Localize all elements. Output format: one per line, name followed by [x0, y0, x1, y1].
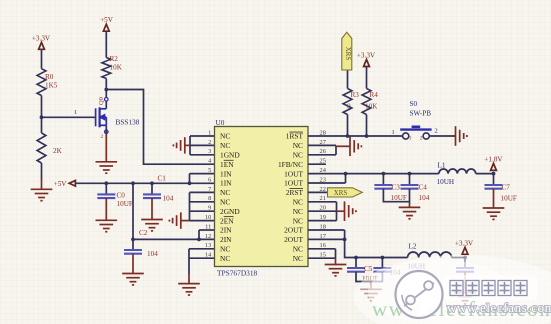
svg-text:0: 0 — [347, 103, 351, 111]
junction pin17 bracket — [343, 238, 347, 242]
wire 2IN to pin 12 — [133, 238, 215, 240]
ground (pins 21-19, sideways) — [337, 201, 356, 221]
ground (pins 27-26, sideways) — [336, 137, 361, 157]
svg-text:C3: C3 — [392, 184, 401, 192]
svg-text:www.elecfans.com: www.elecfans.com — [447, 300, 551, 315]
svg-text:+3.3V: +3.3V — [455, 239, 474, 247]
wire pin 28 (1RST) to switch S0 — [308, 135, 402, 137]
Q0 drain pin-end circle — [105, 98, 109, 102]
svg-text:2OUT: 2OUT — [284, 235, 303, 244]
wire pins 18-17 bracket to 2OUT rail — [308, 230, 408, 258]
capacitor C8 — [456, 268, 474, 272]
capacitor C4 — [401, 185, 419, 189]
svg-text:NC: NC — [220, 245, 230, 254]
power +5V (top) — [100, 16, 114, 31]
op-amp U0 TPS767D318 (IC body) — [215, 127, 309, 267]
svg-text:S0: S0 — [410, 100, 418, 108]
junction 1OUT bracket — [344, 172, 348, 176]
svg-text:14: 14 — [205, 252, 212, 259]
wire pin 23 stub (1OUT) — [308, 182, 346, 184]
ground (below 2K) — [31, 180, 53, 201]
junction rail/C0 — [104, 181, 108, 185]
svg-text:1: 1 — [74, 109, 77, 116]
svg-text:2: 2 — [208, 139, 211, 146]
wire +3.3V to R4 — [366, 67, 368, 89]
wire to C7 — [493, 174, 495, 185]
resistor R4 — [362, 89, 371, 115]
svg-text:R4: R4 — [370, 91, 379, 99]
wire pins 7-10 bracket — [190, 192, 215, 220]
junction gate node — [40, 115, 44, 119]
svg-text:NC: NC — [293, 207, 303, 216]
svg-text:104: 104 — [419, 194, 430, 202]
svg-text:2IN: 2IN — [220, 226, 232, 235]
svg-text:L1: L1 — [438, 161, 446, 169]
wire rail to C1 — [151, 183, 153, 194]
wire rail down to C2 — [132, 183, 134, 250]
junction C6 — [381, 256, 385, 260]
capacitor C3 — [374, 185, 392, 189]
junction R3 — [346, 134, 350, 138]
svg-text:10: 10 — [205, 214, 211, 221]
svg-text:L2: L2 — [409, 242, 417, 250]
ground (pins 1-3, sideways) — [173, 137, 190, 153]
svg-text:2OUT: 2OUT — [284, 226, 303, 235]
wire drain node to 1EN pin 4 — [106, 90, 214, 165]
svg-text:104: 104 — [163, 195, 174, 203]
svg-text:C1: C1 — [158, 174, 167, 182]
svg-text:13: 13 — [205, 242, 211, 249]
junction C2/2IN wire — [131, 238, 135, 242]
svg-text:XRS: XRS — [344, 47, 351, 61]
wire L2 to +3.3V node — [452, 257, 465, 259]
svg-text:8: 8 — [208, 195, 211, 202]
wire pins 1-3 bracket — [190, 136, 215, 155]
svg-text:C5: C5 — [364, 265, 373, 273]
svg-text:+5V: +5V — [100, 16, 114, 24]
capacitor C6 — [373, 268, 391, 272]
wire to C4 — [409, 174, 411, 185]
svg-text:1FB/NC: 1FB/NC — [278, 160, 303, 169]
resistor 2K — [37, 133, 46, 163]
svg-text:R0: R0 — [45, 73, 54, 81]
wire pin 25 stub (1FB/NC) — [308, 163, 326, 165]
svg-text:1IN: 1IN — [220, 179, 232, 188]
wire L1 to +1.8V node — [476, 173, 494, 175]
svg-text:104: 104 — [147, 250, 158, 258]
svg-text:NC: NC — [220, 254, 230, 263]
wire to C3 — [382, 174, 384, 185]
svg-text:10K: 10K — [110, 64, 123, 72]
wire pins 27-26 bracket — [308, 145, 336, 154]
wire +3.3V to R0 — [41, 49, 43, 68]
svg-text:5: 5 — [208, 167, 211, 174]
svg-text:NC: NC — [293, 216, 303, 225]
svg-text:TPS767D318: TPS767D318 — [217, 268, 258, 277]
wire to C5 — [355, 258, 357, 268]
svg-text:+3.3V: +3.3V — [357, 52, 376, 60]
wire R0 to node — [41, 96, 43, 134]
ground (below Q0) — [96, 134, 118, 174]
svg-text:NC: NC — [293, 245, 303, 254]
svg-text:6: 6 — [208, 176, 211, 183]
capacitor C5 — [347, 268, 365, 272]
svg-text:11: 11 — [205, 223, 211, 230]
svg-text:10UF: 10UF — [117, 200, 133, 208]
wire pin 5 stub (1IN) — [190, 173, 215, 175]
svg-text:XRS: XRS — [334, 190, 348, 197]
port XRS (vertical flag) — [342, 32, 352, 70]
junction +3.3V/C8 — [463, 256, 467, 260]
wire S0 to ground — [429, 135, 455, 137]
junction drain node — [104, 88, 108, 92]
wire pins 21-19 bracket — [308, 202, 337, 221]
switch S0 SW-PB — [400, 127, 431, 139]
wire XRS flag to R3 — [347, 70, 349, 89]
ground (below pins 16-15) — [325, 258, 347, 276]
wire R4 bottom — [366, 115, 368, 137]
svg-text:2EN: 2EN — [220, 216, 234, 225]
resistor R0 — [37, 69, 46, 96]
svg-text:1EN: 1EN — [220, 160, 234, 169]
ground (below C8) — [454, 272, 476, 304]
power +1.8V — [484, 155, 503, 170]
wire 1OUT rail — [308, 173, 439, 175]
ground (right of S0, sideways) — [452, 126, 467, 146]
svg-text:2: 2 — [101, 134, 104, 140]
svg-text:2GND: 2GND — [220, 207, 240, 216]
ground (pins 7-10, sideways) — [169, 212, 189, 228]
svg-text:+5V: +5V — [54, 180, 68, 188]
svg-text:C2: C2 — [139, 229, 148, 237]
svg-text:+3.3V: +3.3V — [32, 34, 51, 42]
ground (below C0) — [96, 198, 118, 232]
junction pin11/pin12 — [197, 238, 201, 242]
svg-text:10UF: 10UF — [391, 194, 407, 202]
svg-text:1GND: 1GND — [220, 151, 240, 160]
svg-text:C0: C0 — [117, 191, 126, 199]
svg-text:1IN: 1IN — [220, 169, 232, 178]
svg-text:10K: 10K — [365, 103, 378, 111]
wire pin23-pin24 bracket — [345, 174, 347, 183]
inductor L2 — [408, 252, 452, 257]
junction rail/C1 — [150, 181, 154, 185]
wire to C6 — [381, 258, 383, 268]
svg-text:1: 1 — [392, 129, 395, 136]
svg-text:1: 1 — [409, 136, 412, 142]
svg-text:BSS138: BSS138 — [116, 118, 140, 127]
power +3.3V (left divider) — [32, 34, 51, 49]
port XRS (right-pointing flag) — [328, 188, 363, 197]
svg-text:2K: 2K — [53, 147, 63, 155]
ground (below C3/C4) — [399, 202, 421, 219]
svg-text:NC: NC — [293, 198, 303, 207]
wire pins 13-14 bracket — [189, 249, 215, 274]
svg-text:NC: NC — [293, 254, 303, 263]
capacitor C2 — [124, 250, 142, 254]
capacitor C0 — [97, 194, 115, 198]
transistor Q0 BSS138 — [96, 107, 107, 127]
wire rail to C0 — [105, 183, 107, 194]
ground (below C1) — [141, 198, 163, 231]
wire C5/C6 bottoms join — [356, 272, 382, 282]
junction R4 — [365, 134, 369, 138]
svg-text:3: 3 — [208, 148, 211, 155]
watermark logo circle — [396, 271, 443, 318]
svg-text:12: 12 — [205, 233, 211, 240]
wire pin 11 stub (2IN) — [199, 229, 215, 231]
svg-text:R3: R3 — [351, 91, 360, 99]
junction C4 — [408, 172, 412, 176]
svg-text:NC: NC — [293, 141, 303, 150]
wire pin11-pin12 bracket — [198, 230, 200, 239]
svg-text:U0: U0 — [216, 118, 225, 127]
capacitor C1 — [143, 194, 161, 198]
svg-text:NC: NC — [293, 151, 303, 160]
power +3.3V (R4 pullup) — [357, 52, 376, 67]
wire node to Q0 gate — [42, 116, 96, 118]
svg-text:C4: C4 — [419, 184, 428, 192]
wire +5V rail to pin 6 (1IN) — [76, 182, 215, 184]
resistor R3 — [343, 89, 352, 115]
svg-text:9: 9 — [208, 205, 211, 212]
svg-text:NC: NC — [220, 188, 230, 197]
wire C3/C4 bottoms join — [383, 189, 409, 202]
power +5V (rail, left-pointing arrow) — [69, 181, 75, 187]
svg-text:10UH: 10UH — [437, 178, 455, 186]
wire R2 to Q0 drain — [105, 79, 107, 109]
svg-text:1RST: 1RST — [286, 132, 304, 141]
watermark CJK brand glyph blocks — [450, 281, 527, 296]
svg-text:2: 2 — [435, 128, 438, 135]
svg-text:1OUT: 1OUT — [284, 169, 303, 178]
wire pin5-pin6 bracket — [189, 174, 191, 184]
svg-text:1K5: 1K5 — [45, 82, 58, 90]
svg-text:C7: C7 — [502, 184, 511, 192]
wire to C8 — [464, 258, 466, 268]
svg-text:1: 1 — [208, 129, 211, 136]
svg-text:NC: NC — [220, 141, 230, 150]
svg-text:+1.8V: +1.8V — [484, 155, 503, 163]
wire R3 bottom — [347, 115, 349, 137]
svg-text:SW-PB: SW-PB — [410, 109, 432, 117]
ground (below C7) — [483, 189, 505, 220]
wire +5V to R2 — [105, 31, 107, 57]
svg-text:2: 2 — [420, 136, 423, 142]
svg-text:1OUT: 1OUT — [284, 179, 303, 188]
wire pin 22 (2RST) to XRS — [308, 191, 328, 193]
junction C3 — [382, 172, 386, 176]
svg-text:Q0: Q0 — [98, 97, 105, 105]
capacitor C7 — [485, 185, 503, 189]
Q0 source pin-end circle — [105, 130, 109, 134]
svg-text:NC: NC — [220, 198, 230, 207]
power +3.3V (2OUT) — [455, 239, 474, 254]
inductor L1 — [439, 169, 476, 174]
svg-text:R2: R2 — [110, 55, 119, 63]
junction rail/C2 — [131, 181, 135, 185]
wire 2K to ground — [41, 163, 43, 180]
ground (below C2) — [122, 254, 144, 285]
junction rail/pin5 — [188, 181, 192, 185]
ground (below pins 13-14) — [178, 274, 200, 295]
svg-text:NC: NC — [220, 132, 230, 141]
svg-text:2RST: 2RST — [286, 188, 304, 197]
ground (below C5/C6) — [360, 282, 382, 301]
svg-text:10UF: 10UF — [501, 194, 517, 202]
junction +1.8V/C7 — [492, 172, 496, 176]
wire pins 16-15 bracket — [308, 249, 336, 258]
watermark haze — [354, 255, 551, 324]
resistor R2 — [102, 58, 111, 79]
junction C5 — [354, 256, 358, 260]
svg-text:2IN: 2IN — [220, 235, 232, 244]
wire Q0 source down — [105, 125, 107, 133]
